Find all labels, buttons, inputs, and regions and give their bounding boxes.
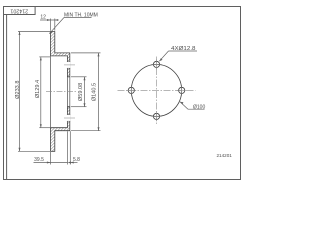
svg-text:Ø129.4: Ø129.4 xyxy=(35,80,41,98)
svg-text:Ø140.5: Ø140.5 xyxy=(92,83,98,101)
svg-text:12: 12 xyxy=(40,15,46,21)
svg-text:Ø233.8: Ø233.8 xyxy=(15,81,21,99)
svg-text:214201: 214201 xyxy=(217,153,233,158)
svg-text:5.8: 5.8 xyxy=(73,157,80,163)
svg-text:39.5: 39.5 xyxy=(34,157,44,163)
svg-text:Ø59.08: Ø59.08 xyxy=(78,83,84,101)
svg-text:214201: 214201 xyxy=(10,7,28,13)
